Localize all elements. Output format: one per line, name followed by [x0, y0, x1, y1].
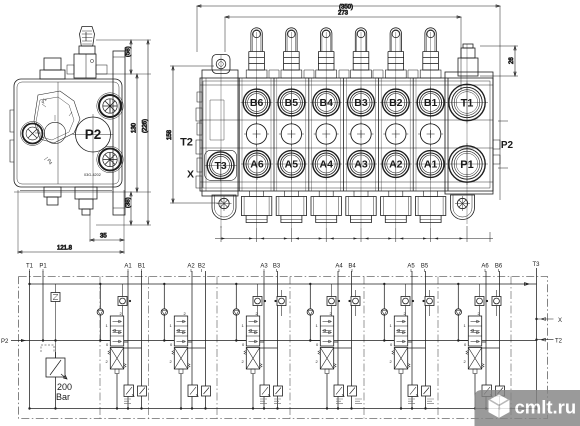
- top tank bus wire: [30, 283, 537, 286]
- label P2 right: [498, 121, 514, 168]
- mounting ear top-left: [212, 55, 230, 74]
- mounting ear bottom-left: [212, 195, 236, 220]
- port A1: [415, 148, 447, 180]
- mounting ear bottom-right: [451, 195, 475, 220]
- S4 pilot checks: [327, 284, 360, 316]
- S6 pilot checks: [475, 284, 501, 316]
- X arrow right: [537, 318, 563, 324]
- svg-text:A6: A6: [250, 159, 264, 171]
- S5 pilot checks: [401, 284, 434, 316]
- dimension 26: [480, 46, 518, 76]
- svg-text:B1: B1: [138, 264, 146, 270]
- svg-text:(38): (38): [126, 197, 132, 208]
- svg-text:P2: P2: [501, 140, 514, 151]
- side dims bottom: 35 and 121.8: [18, 190, 124, 254]
- svg-text:A1: A1: [124, 264, 132, 270]
- front view bottom pitch dimension: [215, 226, 493, 242]
- svg-text:P4: P4: [46, 158, 53, 166]
- svg-text:T1: T1: [26, 264, 34, 270]
- svg-text:T2: T2: [180, 137, 193, 149]
- dimension 273: [225, 11, 461, 91]
- side port left: [21, 122, 45, 146]
- side view top-left fitting: [40, 58, 65, 79]
- right riser wire: [536, 284, 538, 409]
- T1 wire: [29, 271, 31, 284]
- top bolts row: [246, 28, 441, 78]
- svg-text:(58): (58): [126, 46, 132, 57]
- port A4: [310, 148, 342, 180]
- port A2: [380, 148, 412, 180]
- svg-text:T3: T3: [532, 262, 540, 268]
- svg-text:X: X: [558, 318, 562, 324]
- port B1: [415, 87, 447, 119]
- relief valve 200 Bar: [41, 345, 67, 409]
- S1 pilot check: [118, 284, 131, 316]
- section S3 valve: [233, 264, 282, 410]
- port T3: [205, 149, 237, 181]
- svg-text:B5: B5: [421, 264, 429, 270]
- dimension 158: [167, 66, 218, 203]
- spool circles row: [244, 122, 443, 147]
- svg-text:B3: B3: [273, 264, 281, 270]
- section centerlines: [221, 32, 467, 228]
- bottom return bus wire: [30, 408, 537, 410]
- side port P2: [73, 114, 114, 201]
- S3 pilot checks: [253, 284, 286, 316]
- port T1: [446, 82, 488, 124]
- side view bottom fittings: [44, 187, 97, 215]
- port A6: [241, 148, 273, 180]
- svg-text:130: 130: [132, 122, 138, 133]
- svg-text:A6: A6: [481, 264, 489, 270]
- side view handle: [67, 27, 107, 79]
- svg-text:200: 200: [57, 382, 72, 392]
- svg-text:T2: T2: [555, 339, 563, 345]
- right end cap: [445, 72, 500, 194]
- svg-text:cmlt.ru: cmlt.ru: [515, 397, 577, 418]
- svg-text:158: 158: [167, 129, 173, 140]
- svg-text:P1: P1: [39, 264, 47, 270]
- bottom caps: [241, 191, 445, 223]
- section separators: [100, 277, 511, 419]
- side view body: [10, 79, 122, 191]
- section S1 valve: [97, 264, 146, 410]
- section S5 valve: [381, 264, 434, 410]
- svg-text:A5: A5: [407, 264, 415, 270]
- P1 wire: [42, 271, 44, 341]
- side view mounting plate: [113, 51, 125, 215]
- svg-text:B2: B2: [198, 264, 206, 270]
- port A3: [345, 148, 377, 180]
- section S4 valve: [307, 264, 362, 410]
- section S2 valve: [161, 264, 210, 410]
- svg-text:03G-4202: 03G-4202: [84, 173, 101, 177]
- side dims right: (58) 130 (226) (38): [14, 40, 151, 225]
- port B4: [310, 87, 342, 119]
- svg-text:35: 35: [100, 234, 107, 240]
- side port bottom: [97, 146, 123, 172]
- svg-text:121.8: 121.8: [57, 246, 73, 252]
- svg-text:X: X: [187, 169, 194, 181]
- svg-text:Bar: Bar: [56, 392, 70, 402]
- enclosure dash-dot border: [19, 277, 548, 419]
- junction dots left: [28, 283, 30, 285]
- svg-text:A4: A4: [335, 264, 343, 270]
- port B6: [241, 87, 273, 119]
- port B2: [380, 87, 412, 119]
- svg-text:(226): (226): [143, 119, 149, 133]
- side port top: [97, 93, 123, 119]
- svg-text:P1: P1: [41, 97, 48, 105]
- svg-text:A2: A2: [187, 264, 195, 270]
- svg-text:A3: A3: [260, 264, 268, 270]
- port P1: [446, 143, 488, 185]
- dimension (350): [197, 5, 500, 201]
- svg-text:B4: B4: [348, 264, 356, 270]
- left end cap: [196, 70, 238, 196]
- svg-text:26: 26: [509, 57, 515, 64]
- port A5: [275, 148, 307, 180]
- svg-text:273: 273: [338, 11, 349, 17]
- left tank riser wire: [29, 284, 31, 409]
- T2 arrow right: [537, 338, 563, 344]
- valve bank body: [200, 78, 493, 191]
- svg-text:T3: T3: [214, 160, 226, 172]
- cube logo: [489, 395, 510, 418]
- svg-text:B6: B6: [495, 264, 503, 270]
- section S6 valve: [455, 264, 504, 410]
- T3 wire: [536, 268, 538, 284]
- port B3: [345, 87, 377, 119]
- svg-text:P2: P2: [85, 127, 102, 142]
- P pressure bus wire: [11, 340, 537, 342]
- port B5: [275, 87, 307, 119]
- top-right fitting: [458, 44, 478, 76]
- filter on pilot line: [51, 284, 60, 358]
- svg-text:P2: P2: [1, 339, 9, 345]
